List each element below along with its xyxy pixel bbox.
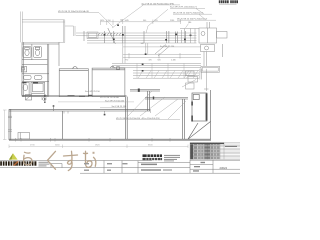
svg-text:940: 940 xyxy=(143,20,146,22)
svg-text:150: 150 xyxy=(108,20,111,22)
svg-text:370: 370 xyxy=(149,60,152,62)
svg-text:VD.25 VE 25 FS-5A: VD.25 VE 25 FS-5A xyxy=(100,96,119,99)
svg-text:140: 140 xyxy=(120,20,123,22)
svg-text:2180: 2180 xyxy=(170,20,174,22)
svg-text:Su-5 VE 25 150: Su-5 VE 25 150 xyxy=(85,91,101,93)
svg-text:2,180: 2,180 xyxy=(171,60,176,62)
svg-text:23024: 23024 xyxy=(220,166,228,170)
svg-text:620: 620 xyxy=(101,20,104,22)
svg-text:920: 920 xyxy=(158,60,161,62)
svg-text:140: 140 xyxy=(141,43,144,45)
svg-text:770: 770 xyxy=(125,60,128,62)
svg-text:955: 955 xyxy=(155,20,158,22)
svg-text:1445: 1445 xyxy=(125,20,129,22)
